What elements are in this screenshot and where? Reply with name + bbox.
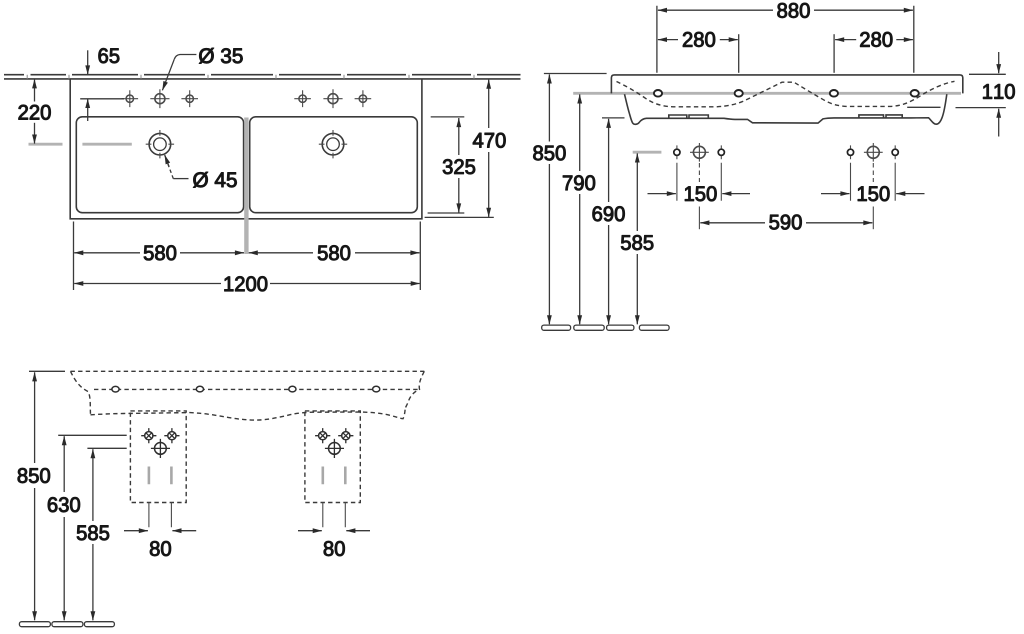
dim 690	[608, 119, 610, 202]
fixing hole 2	[735, 90, 743, 97]
wall tile joints	[27, 75, 474, 79]
gray divider bar	[244, 118, 248, 255]
dim 470 label	[473, 133, 506, 148]
dim 65 arrows	[87, 50, 89, 74]
body slab outline	[611, 75, 962, 94]
dim 65 ref line	[80, 98, 124, 100]
tap hole small R1	[847, 145, 853, 159]
fixing hole 3	[830, 90, 838, 97]
dim 150 left	[648, 193, 676, 195]
dim 150 left ext	[677, 163, 721, 201]
mount cross L1	[141, 428, 156, 443]
dim 150 right	[821, 193, 850, 195]
dim 470	[488, 80, 490, 128]
dim 80 left	[124, 530, 148, 532]
dim 850 ext top	[544, 73, 607, 75]
tap hole small right1	[294, 90, 311, 107]
tap hole small R2	[892, 145, 898, 159]
dim 630 ref	[58, 434, 127, 436]
fixing hole 1	[654, 90, 662, 97]
drain right	[319, 130, 347, 158]
dim 325 ext top	[431, 116, 465, 118]
gray ref line tap holes	[633, 151, 662, 154]
dim 220	[34, 79, 36, 101]
tap hole mid R	[864, 143, 883, 162]
dim d45 leader	[173, 178, 188, 180]
drain box left	[130, 411, 186, 503]
dim 150 right ext	[851, 163, 896, 201]
dim 325	[458, 118, 460, 155]
dim d35 leader	[174, 55, 196, 60]
dim 220 label	[19, 105, 51, 120]
dim 280 right	[835, 39, 856, 41]
floor strip b3	[84, 622, 114, 627]
BACK VIEW	[18, 371, 425, 626]
dim 850	[548, 74, 550, 141]
dim 325 ext bottom	[428, 212, 465, 214]
fixing tab staples left	[669, 115, 709, 118]
tap hole mid right	[323, 89, 342, 108]
gray centerline outside	[29, 143, 63, 146]
dim d45 label	[193, 172, 236, 188]
dim 585 ref	[87, 447, 126, 449]
dim 1200	[74, 283, 221, 285]
fixing hole 4	[911, 90, 919, 97]
dim 590	[700, 222, 765, 224]
dim 280 left ext	[738, 34, 740, 73]
FRONT VIEW	[533, 3, 1014, 330]
wall top tile segments	[4, 74, 521, 76]
floor strip 3	[607, 325, 634, 330]
gray centerline through fixing holes	[573, 92, 961, 95]
wall bottom line	[4, 78, 521, 80]
dim d35 label	[199, 48, 242, 64]
fixing tab staples right	[859, 115, 902, 118]
mount cross L big	[151, 439, 170, 458]
mount cross R1	[315, 428, 330, 443]
floor strip 1	[542, 325, 571, 330]
drain left	[146, 130, 174, 158]
PLAN VIEW	[4, 48, 521, 291]
dim 280 right ext	[833, 34, 835, 73]
dim 580 right	[249, 252, 313, 254]
dashed top edge	[71, 370, 425, 372]
hidden bowl dashed curve	[617, 81, 955, 107]
mount cross R2	[338, 428, 353, 443]
body bottom contour	[625, 94, 947, 124]
tap hole small L2	[718, 145, 724, 159]
dim 850 ref top	[29, 370, 65, 372]
dim 65 label	[99, 48, 120, 63]
dim 80 ext lines right	[323, 503, 346, 528]
rim hole 2	[196, 386, 203, 392]
dim 880 ext lines	[657, 6, 914, 73]
tap hole mid L	[690, 143, 709, 162]
floor strip 2	[574, 325, 604, 330]
dim 80 ext lines left	[149, 503, 172, 528]
floor strip b2	[52, 622, 83, 627]
dim 690 ext top	[602, 117, 625, 119]
dim 470 ext bottom	[425, 216, 494, 218]
gray slot marks left box	[149, 467, 172, 485]
dim 325 label	[443, 159, 475, 174]
dashed right end curve	[405, 371, 424, 408]
dim ext verticals	[74, 222, 421, 291]
dim 880	[658, 9, 773, 11]
dim 850	[34, 372, 36, 463]
floor strip b1	[19, 622, 50, 627]
rim hole 1	[112, 386, 119, 392]
rim hole 4	[373, 386, 380, 392]
dashed rim line	[94, 388, 420, 390]
dim 630	[63, 436, 65, 492]
basin outer contour	[70, 79, 422, 219]
tap hole small right2	[355, 90, 372, 107]
mount cross L2	[164, 428, 179, 443]
dashed left end curve	[71, 371, 91, 414]
mount cross R big	[325, 439, 344, 458]
dim 585	[636, 153, 638, 231]
dim 110 ext lines	[907, 74, 1006, 107]
gray centerline inside	[82, 143, 131, 146]
floor strip 4	[639, 325, 669, 330]
tap hole small left2	[181, 90, 198, 107]
dim 80 right	[298, 530, 322, 532]
left inner basin	[76, 117, 243, 213]
drain box right	[305, 411, 360, 503]
tap hole small left1	[122, 90, 139, 107]
rim hole 3	[289, 386, 296, 392]
dim 110 arrows	[998, 52, 1000, 73]
dim 280 left	[658, 39, 678, 41]
gray slot marks right box	[323, 467, 346, 485]
dim 585	[92, 449, 94, 521]
tap hole small L1	[674, 145, 680, 159]
dim 790	[579, 94, 581, 171]
tap hole mid left	[150, 89, 169, 108]
dashed bottom contour	[91, 408, 406, 420]
dim 580 left	[74, 252, 140, 254]
right inner basin	[250, 117, 418, 213]
